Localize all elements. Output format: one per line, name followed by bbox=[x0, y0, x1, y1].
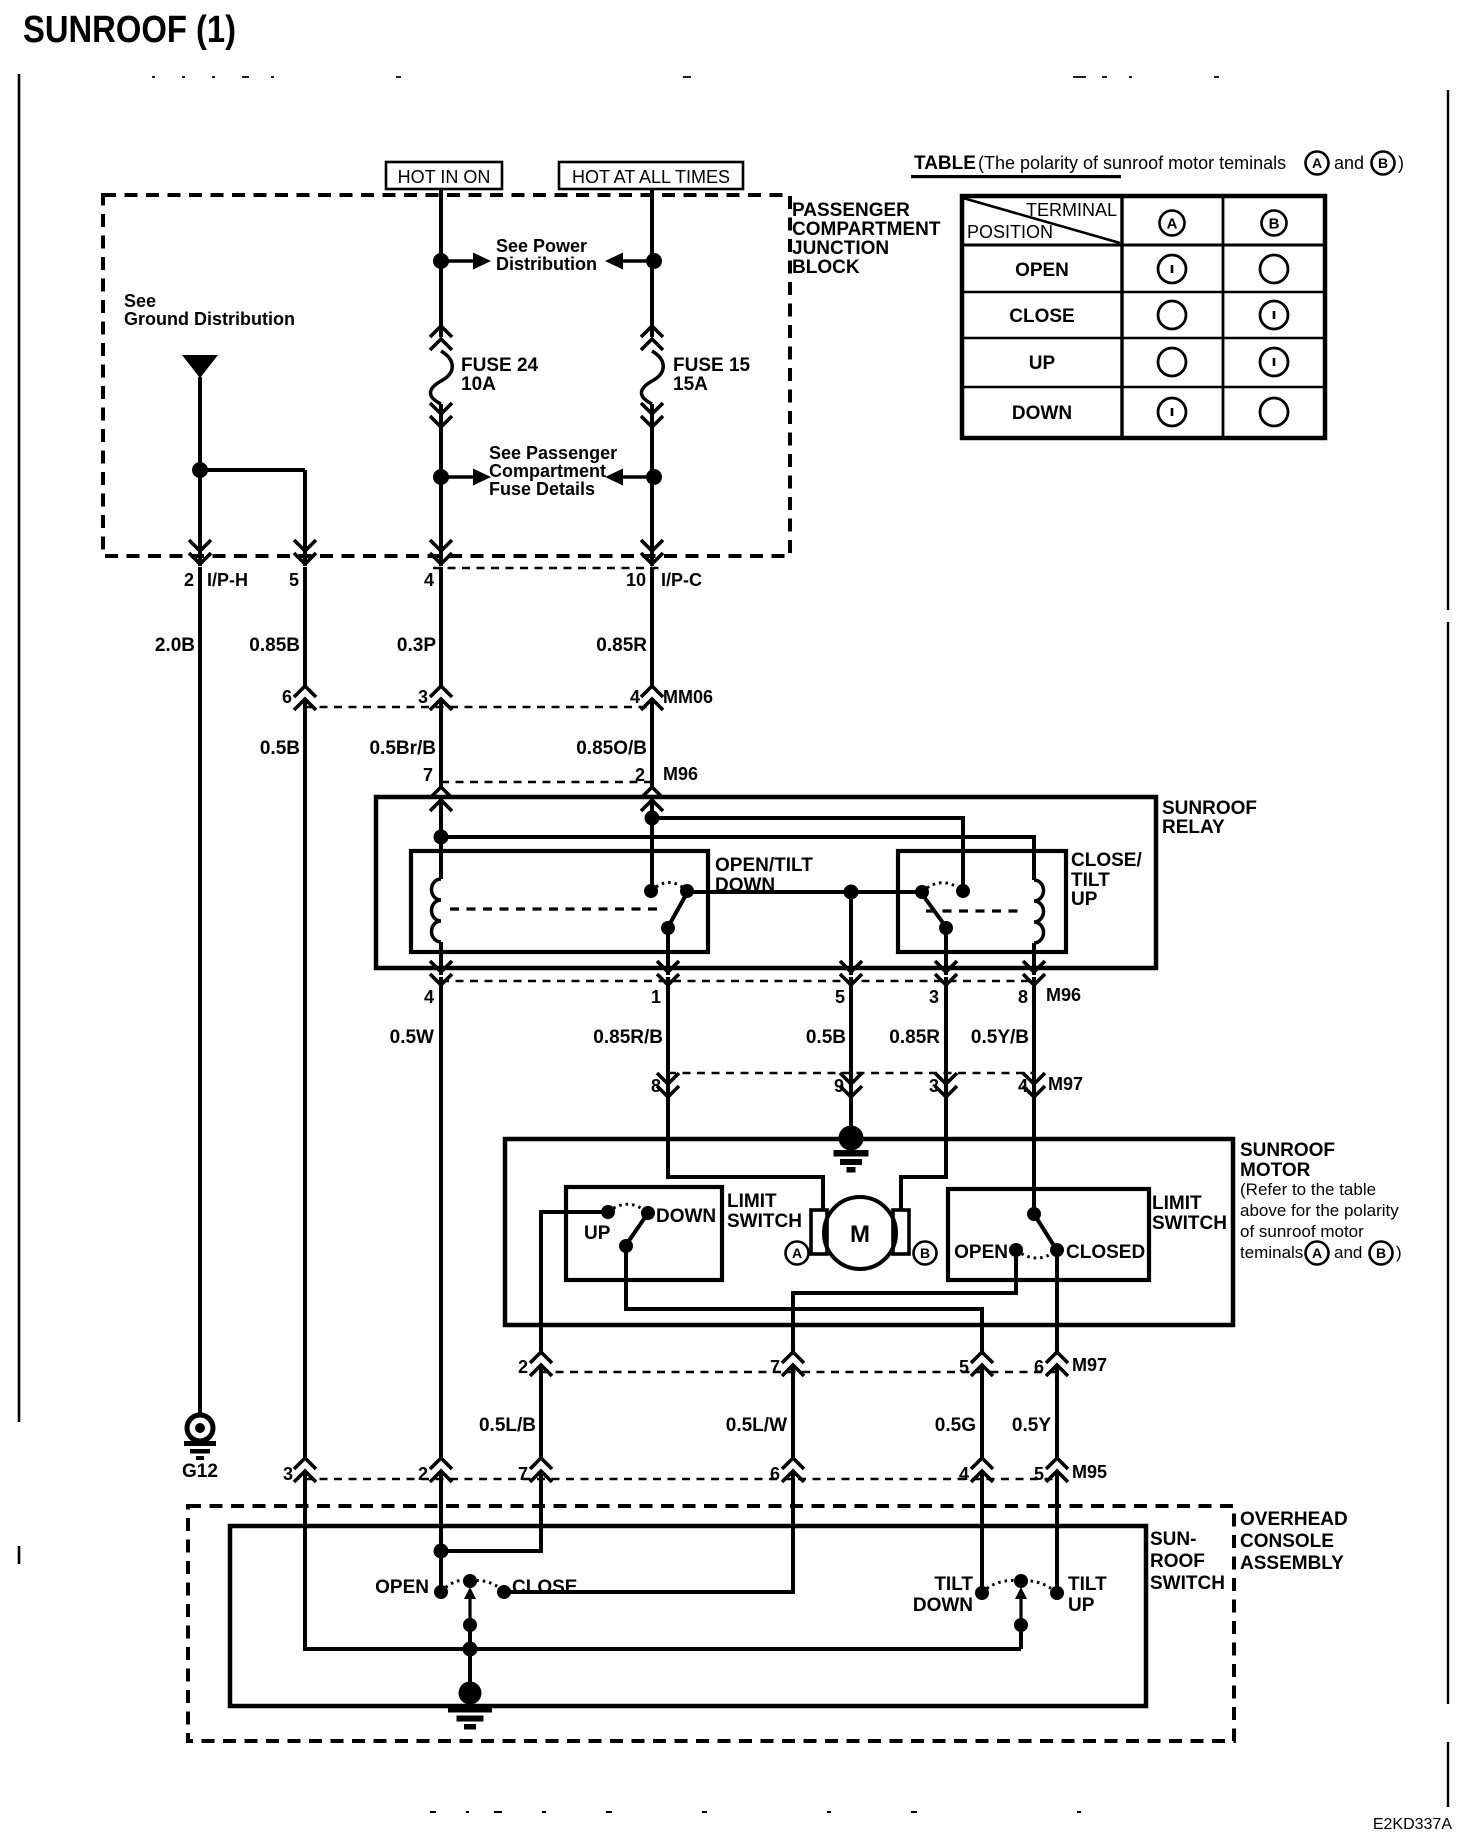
svg-text:0.5Y/B: 0.5Y/B bbox=[971, 1027, 1029, 1048]
relay SW1 pivot dot bbox=[680, 884, 694, 898]
svg-text:DOWN: DOWN bbox=[656, 1206, 716, 1227]
wire 0.5Br/B (x=441) bbox=[439, 699, 443, 788]
connector M97 pin6 chevron (bottom) bbox=[1046, 1352, 1068, 1376]
wire HOT AT ALL TIMES feed (x=652) bbox=[650, 189, 654, 566]
junction on HOT IN ON wire bbox=[433, 253, 449, 269]
bottom faint dotted line bbox=[430, 1811, 1081, 1813]
svg-text:above for the polarity: above for the polarity bbox=[1240, 1201, 1399, 1220]
wire 0.5L/B (x=541) bbox=[539, 1365, 543, 1460]
wire relay coil1 bottom to pin4 bbox=[439, 942, 443, 975]
svg-text:and: and bbox=[1334, 153, 1364, 173]
wire M95-6 to switch CLOSE bbox=[504, 1471, 793, 1592]
terminal A label bbox=[786, 1242, 809, 1265]
svg-text:PASSENGER: PASSENGER bbox=[792, 200, 910, 221]
connector I/P-C pin 4 chevron bbox=[430, 540, 452, 564]
switch open/close actuator arrow bbox=[464, 1587, 476, 1625]
motor brush bracket B bbox=[893, 1210, 909, 1254]
svg-text:0.5Br/B: 0.5Br/B bbox=[369, 738, 436, 759]
relay SW1 dotted throw arc bbox=[651, 883, 687, 892]
svg-text:OPEN: OPEN bbox=[1015, 260, 1069, 281]
svg-text:SWITCH: SWITCH bbox=[1150, 1573, 1225, 1594]
svg-text:6: 6 bbox=[1034, 1357, 1044, 1377]
switch open/close dotted arcs bbox=[441, 1580, 504, 1592]
tilt actuator tail dot bbox=[1014, 1618, 1028, 1632]
circled terminal A in note bbox=[1306, 1242, 1329, 1265]
wire 0.5G (x=982) bbox=[980, 1365, 984, 1460]
connector MM06 pin 6 chevron bbox=[294, 686, 316, 710]
svg-text:10: 10 bbox=[626, 570, 646, 590]
svg-text:HOT IN ON: HOT IN ON bbox=[398, 167, 491, 187]
wire M95-2 to switch OPEN bbox=[439, 1471, 443, 1592]
svg-text:5: 5 bbox=[289, 570, 299, 590]
label TILT UP bbox=[1068, 1574, 1107, 1616]
OPEN terminal A state (+) bbox=[1158, 255, 1186, 283]
switch CLOSE contact dot bbox=[497, 1585, 511, 1599]
junction on ground wire bbox=[192, 462, 208, 478]
switch open/close common dot bbox=[463, 1574, 477, 1588]
label CLOSE/TILT UP bbox=[1071, 850, 1142, 910]
wire 0.5Y/B (x=1034) bbox=[1032, 977, 1036, 1086]
CLOSE terminal A state bbox=[1158, 301, 1186, 329]
connector M97 pin2 chevron (bottom) bbox=[530, 1352, 552, 1376]
limit switch2 CLOSED contact dot bbox=[1050, 1243, 1064, 1257]
relay SW2 contact dot bbox=[939, 921, 953, 935]
svg-text:B: B bbox=[1378, 155, 1388, 171]
svg-text:10A: 10A bbox=[461, 374, 496, 395]
wire M97-4 to limit switch bbox=[1032, 1085, 1036, 1214]
svg-text:6: 6 bbox=[282, 687, 292, 707]
circled A in table title bbox=[1306, 152, 1329, 175]
svg-text:G12: G12 bbox=[182, 1461, 218, 1482]
pin labels MM06 6 / 3 / 4 bbox=[282, 687, 713, 707]
wire relay pin1 drop bbox=[666, 928, 670, 975]
svg-text:1: 1 bbox=[651, 987, 661, 1007]
switch TILT DOWN contact dot bbox=[975, 1586, 989, 1600]
DOWN terminal B state bbox=[1260, 398, 1288, 426]
svg-text:0.5B: 0.5B bbox=[806, 1027, 846, 1048]
svg-text:0.5L/W: 0.5L/W bbox=[726, 1415, 787, 1436]
svg-text:2.0B: 2.0B bbox=[155, 635, 195, 656]
limit switch arm bbox=[626, 1213, 648, 1245]
svg-text:Ground Distribution: Ground Distribution bbox=[124, 309, 295, 329]
relay mechanical link dashed (left) bbox=[450, 907, 660, 910]
switch tilt actuator arrow bbox=[1015, 1587, 1027, 1625]
arrow to See Passenger Compartment Fuse Details (left) bbox=[441, 469, 491, 486]
wire relay pin5 drop bbox=[849, 892, 853, 975]
svg-text:See: See bbox=[124, 291, 156, 311]
node HOT AT ALL TIMES bbox=[559, 162, 743, 189]
svg-text:5: 5 bbox=[1034, 1464, 1044, 1484]
wire ground distribution (x=200) bbox=[198, 377, 202, 566]
fuse F15 (FUSE 15 15A) bbox=[641, 326, 663, 427]
svg-text:): ) bbox=[1398, 153, 1404, 173]
svg-text:A: A bbox=[1312, 155, 1322, 171]
svg-text:M95: M95 bbox=[1072, 1462, 1107, 1482]
svg-text:LIMIT: LIMIT bbox=[1152, 1193, 1202, 1214]
passenger compartment junction block (dashed box) bbox=[103, 195, 790, 556]
label SUN-ROOF SWITCH bbox=[1150, 1529, 1225, 1594]
wire 0.5B (x=851) bbox=[849, 977, 853, 1086]
svg-text:0.85R: 0.85R bbox=[596, 635, 647, 656]
wire common bus to switch ground bbox=[468, 1649, 472, 1692]
relay coil L2 (close/tilt up) bbox=[1034, 880, 1044, 943]
svg-text:A: A bbox=[792, 1245, 802, 1261]
svg-text:SUNROOF (1): SUNROOF (1) bbox=[23, 9, 236, 51]
DOWN terminal A state (+) bbox=[1158, 398, 1186, 426]
actuator tail dot bbox=[463, 1618, 477, 1632]
svg-text:0.5G: 0.5G bbox=[935, 1415, 976, 1436]
wire 0.5W (x=441) long drop to M95 bbox=[439, 977, 443, 1460]
pin labels M97 bottom 2 7 5 6 bbox=[518, 1355, 1107, 1377]
arrow from HOT AT ALL TIMES to See Power Distribution bbox=[605, 253, 654, 270]
ground G (sunroof motor) bbox=[839, 1126, 864, 1151]
connector M95 pin2 chevron bbox=[430, 1458, 452, 1482]
svg-text:B: B bbox=[1376, 1245, 1386, 1261]
wire tilt actuator to common bus bbox=[1019, 1625, 1023, 1649]
connector I/P-H pin 2 chevron bbox=[189, 540, 211, 564]
connector M96 pin 2 chevron bbox=[641, 787, 663, 811]
svg-text:DOWN: DOWN bbox=[1012, 403, 1072, 424]
connector M96 pin1 chevron bbox=[657, 961, 679, 985]
terminal B label bbox=[914, 1242, 937, 1265]
label SUNROOF MOTOR note bbox=[1240, 1140, 1399, 1262]
sunroof motor box bbox=[505, 1139, 1233, 1325]
wire M95-5 to TILT UP bbox=[1055, 1471, 1059, 1593]
wire M95-7 into switch bbox=[441, 1471, 541, 1551]
svg-text:OPEN/TILT: OPEN/TILT bbox=[715, 855, 813, 876]
relay open/tilt-down inner box bbox=[411, 851, 708, 952]
label TILT DOWN bbox=[913, 1574, 974, 1616]
junction relay pin7 wire bbox=[434, 830, 449, 845]
connector M96 pin4 chevron (relay out) bbox=[430, 961, 452, 985]
svg-text:SWITCH: SWITCH bbox=[727, 1211, 802, 1232]
svg-text:TABLE: TABLE bbox=[914, 153, 976, 174]
relay SW1 arm bbox=[668, 893, 687, 927]
label SUNROOF RELAY bbox=[1162, 798, 1257, 838]
junction relay pin2 wire bbox=[645, 811, 660, 826]
wire relay output bus (y=892) bbox=[687, 890, 922, 894]
wire M97-8 to motor brush A bbox=[668, 1085, 823, 1211]
svg-text:M96: M96 bbox=[663, 764, 698, 784]
svg-text:SUNROOF: SUNROOF bbox=[1162, 798, 1257, 819]
label OPEN/TILT DOWN bbox=[715, 855, 813, 896]
svg-text:FUSE 24: FUSE 24 bbox=[461, 355, 539, 376]
circled B in table title bbox=[1372, 152, 1395, 175]
connector MM06 dashed link bbox=[305, 706, 652, 709]
wire actuator to common bus bbox=[468, 1625, 472, 1649]
svg-text:UP: UP bbox=[584, 1223, 611, 1244]
relay SW2 arm bbox=[922, 894, 946, 927]
wire HOT IN ON feed (x=441) bbox=[439, 189, 443, 566]
limit switch DOWN contact dot bbox=[641, 1206, 655, 1220]
wire limit switch2 OPEN to M97-7 bbox=[793, 1250, 1016, 1355]
CLOSE terminal B state (+) bbox=[1260, 301, 1288, 329]
relay close/tilt-up inner box bbox=[898, 851, 1066, 952]
relay coil L1 (open/tilt down) bbox=[432, 879, 441, 942]
svg-text:3: 3 bbox=[929, 1076, 939, 1096]
table title underline bbox=[911, 175, 1121, 178]
svg-text:0.5B: 0.5B bbox=[260, 738, 300, 759]
svg-text:CLOSE/: CLOSE/ bbox=[1071, 850, 1142, 871]
switch tilt common dot bbox=[1014, 1574, 1028, 1588]
sunroof relay outer box bbox=[376, 797, 1156, 968]
svg-text:M97: M97 bbox=[1072, 1355, 1107, 1375]
svg-text:UP: UP bbox=[1029, 353, 1056, 374]
pin labels M96 7 / 2 bbox=[423, 764, 698, 785]
label LIMIT SWITCH (left) bbox=[727, 1191, 802, 1232]
wire M95-4 to TILT DOWN bbox=[980, 1471, 984, 1593]
wire 0.85R/B (x=668) bbox=[666, 977, 670, 1086]
svg-text:POSITION: POSITION bbox=[967, 222, 1053, 242]
svg-text:0.3P: 0.3P bbox=[397, 635, 436, 656]
pin labels M95 3 2 7 6 4 5 bbox=[283, 1462, 1107, 1484]
svg-text:teminals: teminals bbox=[1240, 1243, 1303, 1262]
svg-text:ROOF: ROOF bbox=[1150, 1551, 1205, 1572]
svg-text:0.85R/B: 0.85R/B bbox=[593, 1027, 663, 1048]
svg-text:TILT: TILT bbox=[934, 1574, 973, 1595]
svg-text:CLOSE: CLOSE bbox=[1009, 306, 1074, 327]
connector I/P-H pin 5 chevron bbox=[294, 540, 316, 564]
wire M97-3 to motor brush B bbox=[901, 1085, 946, 1211]
switch ground symbol bbox=[459, 1682, 482, 1705]
svg-text:6: 6 bbox=[770, 1464, 780, 1484]
limit switch2 arm bbox=[1034, 1214, 1056, 1249]
wire limit switch2 CLOSED to M97-6 bbox=[1055, 1250, 1059, 1355]
svg-text:2: 2 bbox=[418, 1464, 428, 1484]
wire to close relay coil (x=1034) bbox=[441, 837, 1034, 880]
arrow from HOT AT ALL TIMES to Fuse Details bbox=[605, 469, 654, 486]
svg-text:M: M bbox=[850, 1221, 870, 1248]
svg-text:15A: 15A bbox=[673, 374, 708, 395]
wire limit switch UP to M97-2 bbox=[541, 1212, 608, 1355]
connector M95 pin7 chevron bbox=[530, 1458, 552, 1482]
OPEN terminal B state bbox=[1260, 255, 1288, 283]
arrow to See Power Distribution (left) bbox=[441, 253, 491, 270]
label LIMIT SWITCH (right) bbox=[1152, 1193, 1227, 1234]
connector M95 pin6 chevron bbox=[782, 1458, 804, 1482]
junction relay output to pin5 bbox=[844, 885, 859, 900]
wire relay pin3 drop bbox=[944, 928, 948, 975]
limit switch2 dotted arc bbox=[1016, 1250, 1057, 1258]
limit switch dotted arc bbox=[608, 1204, 648, 1213]
svg-text:DOWN: DOWN bbox=[913, 1595, 973, 1616]
label See Power Distribution bbox=[496, 236, 597, 274]
limit switch2 OPEN contact dot bbox=[1009, 1243, 1023, 1257]
UP terminal B state (+) bbox=[1260, 348, 1288, 376]
table header circled A bbox=[1160, 211, 1185, 236]
connector M97 pin4 chevron bbox=[1023, 1073, 1045, 1097]
svg-text:7: 7 bbox=[770, 1357, 780, 1377]
junction on HOT IN ON wire (fuse details) bbox=[433, 469, 449, 485]
relay mechanical link dashed (right) bbox=[926, 909, 1024, 912]
svg-text:4: 4 bbox=[630, 687, 640, 707]
pin labels I/P-H 2 / 5 bbox=[184, 570, 299, 590]
label See Passenger Compartment Fuse Details bbox=[489, 443, 617, 499]
svg-text:7: 7 bbox=[518, 1464, 528, 1484]
wire branch to pin 5 bbox=[200, 468, 305, 472]
svg-text:4: 4 bbox=[959, 1464, 969, 1484]
connector M97 pin7 chevron (bottom) bbox=[782, 1352, 804, 1376]
svg-text:TILT: TILT bbox=[1071, 870, 1110, 891]
connector M96 pin5 chevron bbox=[840, 961, 862, 985]
svg-text:(The polarity of sunroof motor: (The polarity of sunroof motor teminals bbox=[978, 153, 1286, 173]
connector M97 pin3 chevron bbox=[935, 1073, 957, 1097]
wire pin5 drop (x=305) bbox=[303, 470, 307, 566]
connector M97 pin5 chevron (bottom) bbox=[971, 1352, 993, 1376]
connector M97 pin8 chevron bbox=[657, 1073, 679, 1097]
svg-text:A: A bbox=[1312, 1245, 1322, 1261]
connector M96 dashed link (bottom) bbox=[441, 980, 1034, 983]
svg-text:JUNCTION: JUNCTION bbox=[792, 238, 889, 259]
table title bbox=[914, 153, 1286, 174]
svg-text:0.85O/B: 0.85O/B bbox=[576, 738, 647, 759]
svg-text:TILT: TILT bbox=[1068, 1574, 1107, 1595]
wire 0.85B (x=305) bbox=[303, 567, 307, 688]
limit switch UP contact dot bbox=[601, 1205, 615, 1219]
svg-text:3: 3 bbox=[929, 987, 939, 1007]
svg-text:CONSOLE: CONSOLE bbox=[1240, 1531, 1334, 1552]
connector M96 pin3 chevron bbox=[935, 961, 957, 985]
polarity table grid bbox=[962, 196, 1325, 438]
junction on HOT AT ALL TIMES wire (fuse details) bbox=[646, 469, 662, 485]
svg-text:3: 3 bbox=[283, 1464, 293, 1484]
relay SW2 dotted throw arc bbox=[922, 883, 963, 892]
svg-text:4: 4 bbox=[1018, 1076, 1028, 1096]
svg-text:2: 2 bbox=[518, 1357, 528, 1377]
wire 0.5B (x=305) long drop to M95 bbox=[303, 699, 307, 1460]
connector I/P-C dashed link bbox=[433, 567, 660, 570]
svg-text:SUN-: SUN- bbox=[1150, 1529, 1196, 1550]
svg-text:2: 2 bbox=[184, 570, 194, 590]
sunroof switch box bbox=[230, 1526, 1146, 1706]
connector M95 pin5 chevron bbox=[1046, 1458, 1068, 1482]
UP terminal A state bbox=[1158, 348, 1186, 376]
svg-text:5: 5 bbox=[959, 1357, 969, 1377]
node HOT IN ON bbox=[386, 162, 502, 189]
connector M97 pin9 chevron bbox=[840, 1073, 862, 1097]
svg-text:MOTOR: MOTOR bbox=[1240, 1160, 1311, 1181]
svg-text:4: 4 bbox=[424, 570, 434, 590]
svg-text:A: A bbox=[1167, 215, 1178, 232]
junction on HOT AT ALL TIMES wire bbox=[646, 253, 662, 269]
page border top (faint dotted) bbox=[152, 76, 1219, 78]
svg-text:B: B bbox=[920, 1245, 930, 1261]
svg-text:M96: M96 bbox=[1046, 985, 1081, 1005]
svg-text:9: 9 bbox=[834, 1076, 844, 1096]
fuse F24 (FUSE 24 10A) bbox=[430, 326, 452, 427]
svg-text:2: 2 bbox=[635, 765, 645, 785]
motor brush bracket A bbox=[811, 1210, 827, 1254]
svg-text:7: 7 bbox=[423, 765, 433, 785]
motor M1 body bbox=[824, 1197, 896, 1269]
wire relay coil feed (x=441) bbox=[439, 800, 443, 879]
svg-text:): ) bbox=[1396, 1243, 1402, 1262]
page border left bbox=[18, 74, 21, 1564]
label See Ground Distribution bbox=[124, 291, 295, 329]
svg-text:UP: UP bbox=[1071, 889, 1098, 910]
junction common bus bbox=[463, 1642, 478, 1657]
connector M96 pin8 chevron bbox=[1023, 961, 1045, 985]
relay SW2 throw dot bbox=[956, 884, 970, 898]
svg-text:8: 8 bbox=[651, 1076, 661, 1096]
wire 0.85R (x=946) bbox=[944, 977, 948, 1086]
wire relay coil2 bottom to pin8 bbox=[1032, 943, 1036, 975]
connector M97 dashed link (top) bbox=[668, 1072, 1034, 1075]
wire 0.3P (x=441) bbox=[439, 567, 443, 688]
svg-text:0.5L/B: 0.5L/B bbox=[479, 1415, 536, 1436]
page border right bbox=[1447, 90, 1449, 1807]
svg-text:COMPARTMENT: COMPARTMENT bbox=[792, 219, 941, 240]
svg-text:LIMIT: LIMIT bbox=[727, 1191, 777, 1212]
label PASSENGER COMPARTMENT JUNCTION BLOCK bbox=[792, 200, 941, 278]
wire M95-3 to common bus bbox=[305, 1471, 1021, 1649]
connector I/P-C pin 10 chevron bbox=[641, 540, 663, 564]
svg-text:8: 8 bbox=[1018, 987, 1028, 1007]
connector MM06 pin 3 chevron bbox=[430, 686, 452, 710]
label FUSE 15 15A bbox=[673, 355, 751, 395]
svg-text:CLOSED: CLOSED bbox=[1066, 1242, 1145, 1263]
connector M95 dashed link bbox=[305, 1478, 1057, 1481]
svg-text:SWITCH: SWITCH bbox=[1152, 1213, 1227, 1234]
svg-text:Compartment: Compartment bbox=[489, 461, 606, 481]
pin labels M96 bottom 4 1 5 3 8 bbox=[424, 985, 1081, 1007]
wire M97-9 to ground bbox=[849, 1085, 853, 1130]
svg-text:I/P-H: I/P-H bbox=[207, 570, 248, 590]
svg-text:0.85B: 0.85B bbox=[249, 635, 300, 656]
svg-text:5: 5 bbox=[835, 987, 845, 1007]
ground distribution feed arrowhead bbox=[182, 355, 218, 378]
wire 0.5L/W (x=793) bbox=[791, 1365, 795, 1460]
relay SW1 contact dot bbox=[661, 921, 675, 935]
svg-text:See Power: See Power bbox=[496, 236, 587, 256]
limit switch box (up/down) bbox=[566, 1187, 722, 1280]
switch OPEN contact dot bbox=[434, 1585, 448, 1599]
svg-text:See Passenger: See Passenger bbox=[489, 443, 617, 463]
svg-text:ASSEMBLY: ASSEMBLY bbox=[1240, 1553, 1344, 1574]
svg-text:0.85R: 0.85R bbox=[889, 1027, 940, 1048]
svg-text:E2KD337A: E2KD337A bbox=[1373, 1816, 1452, 1833]
connector M97 dashed link (bottom) bbox=[541, 1371, 1057, 1374]
svg-text:M97: M97 bbox=[1048, 1074, 1083, 1094]
wire 2.0B (x=200) to G12 bbox=[198, 567, 202, 1416]
limit switch common dot bbox=[619, 1239, 633, 1253]
wire 2.0B to ground G12 bbox=[199, 1427, 201, 1429]
wire limit switch common to M97-5 bbox=[626, 1246, 982, 1355]
svg-text:Distribution: Distribution bbox=[496, 254, 597, 274]
svg-text:SUNROOF: SUNROOF bbox=[1240, 1140, 1335, 1161]
connector M96 pin 7 chevron bbox=[430, 787, 452, 811]
pin labels M97 8 9 3 4 bbox=[651, 1074, 1083, 1096]
svg-text:(Refer to the table: (Refer to the table bbox=[1240, 1180, 1376, 1199]
wire relay switch feed (x=652) bbox=[650, 800, 654, 891]
ground G12 bars bbox=[184, 1441, 216, 1446]
pin labels I/P-C 4 / 10 bbox=[424, 570, 702, 590]
connector M95 pin3 chevron bbox=[294, 1458, 316, 1482]
relay switch SW1 common dot bbox=[644, 884, 658, 898]
connector M96 dashed link (top) bbox=[441, 781, 652, 784]
switch tilt dotted arcs bbox=[982, 1581, 1057, 1594]
limit switch box (open/closed) bbox=[948, 1189, 1149, 1280]
svg-text:3: 3 bbox=[418, 687, 428, 707]
svg-text:UP: UP bbox=[1068, 1595, 1095, 1616]
connector M95 pin4 chevron bbox=[971, 1458, 993, 1482]
junction open wire bbox=[434, 1544, 449, 1559]
switch TILT UP contact dot bbox=[1050, 1586, 1064, 1600]
table header diagonal bbox=[963, 198, 1120, 243]
svg-text:Fuse Details: Fuse Details bbox=[489, 479, 595, 499]
circled terminal B in note bbox=[1370, 1242, 1393, 1265]
svg-text:HOT AT ALL TIMES: HOT AT ALL TIMES bbox=[572, 167, 730, 187]
